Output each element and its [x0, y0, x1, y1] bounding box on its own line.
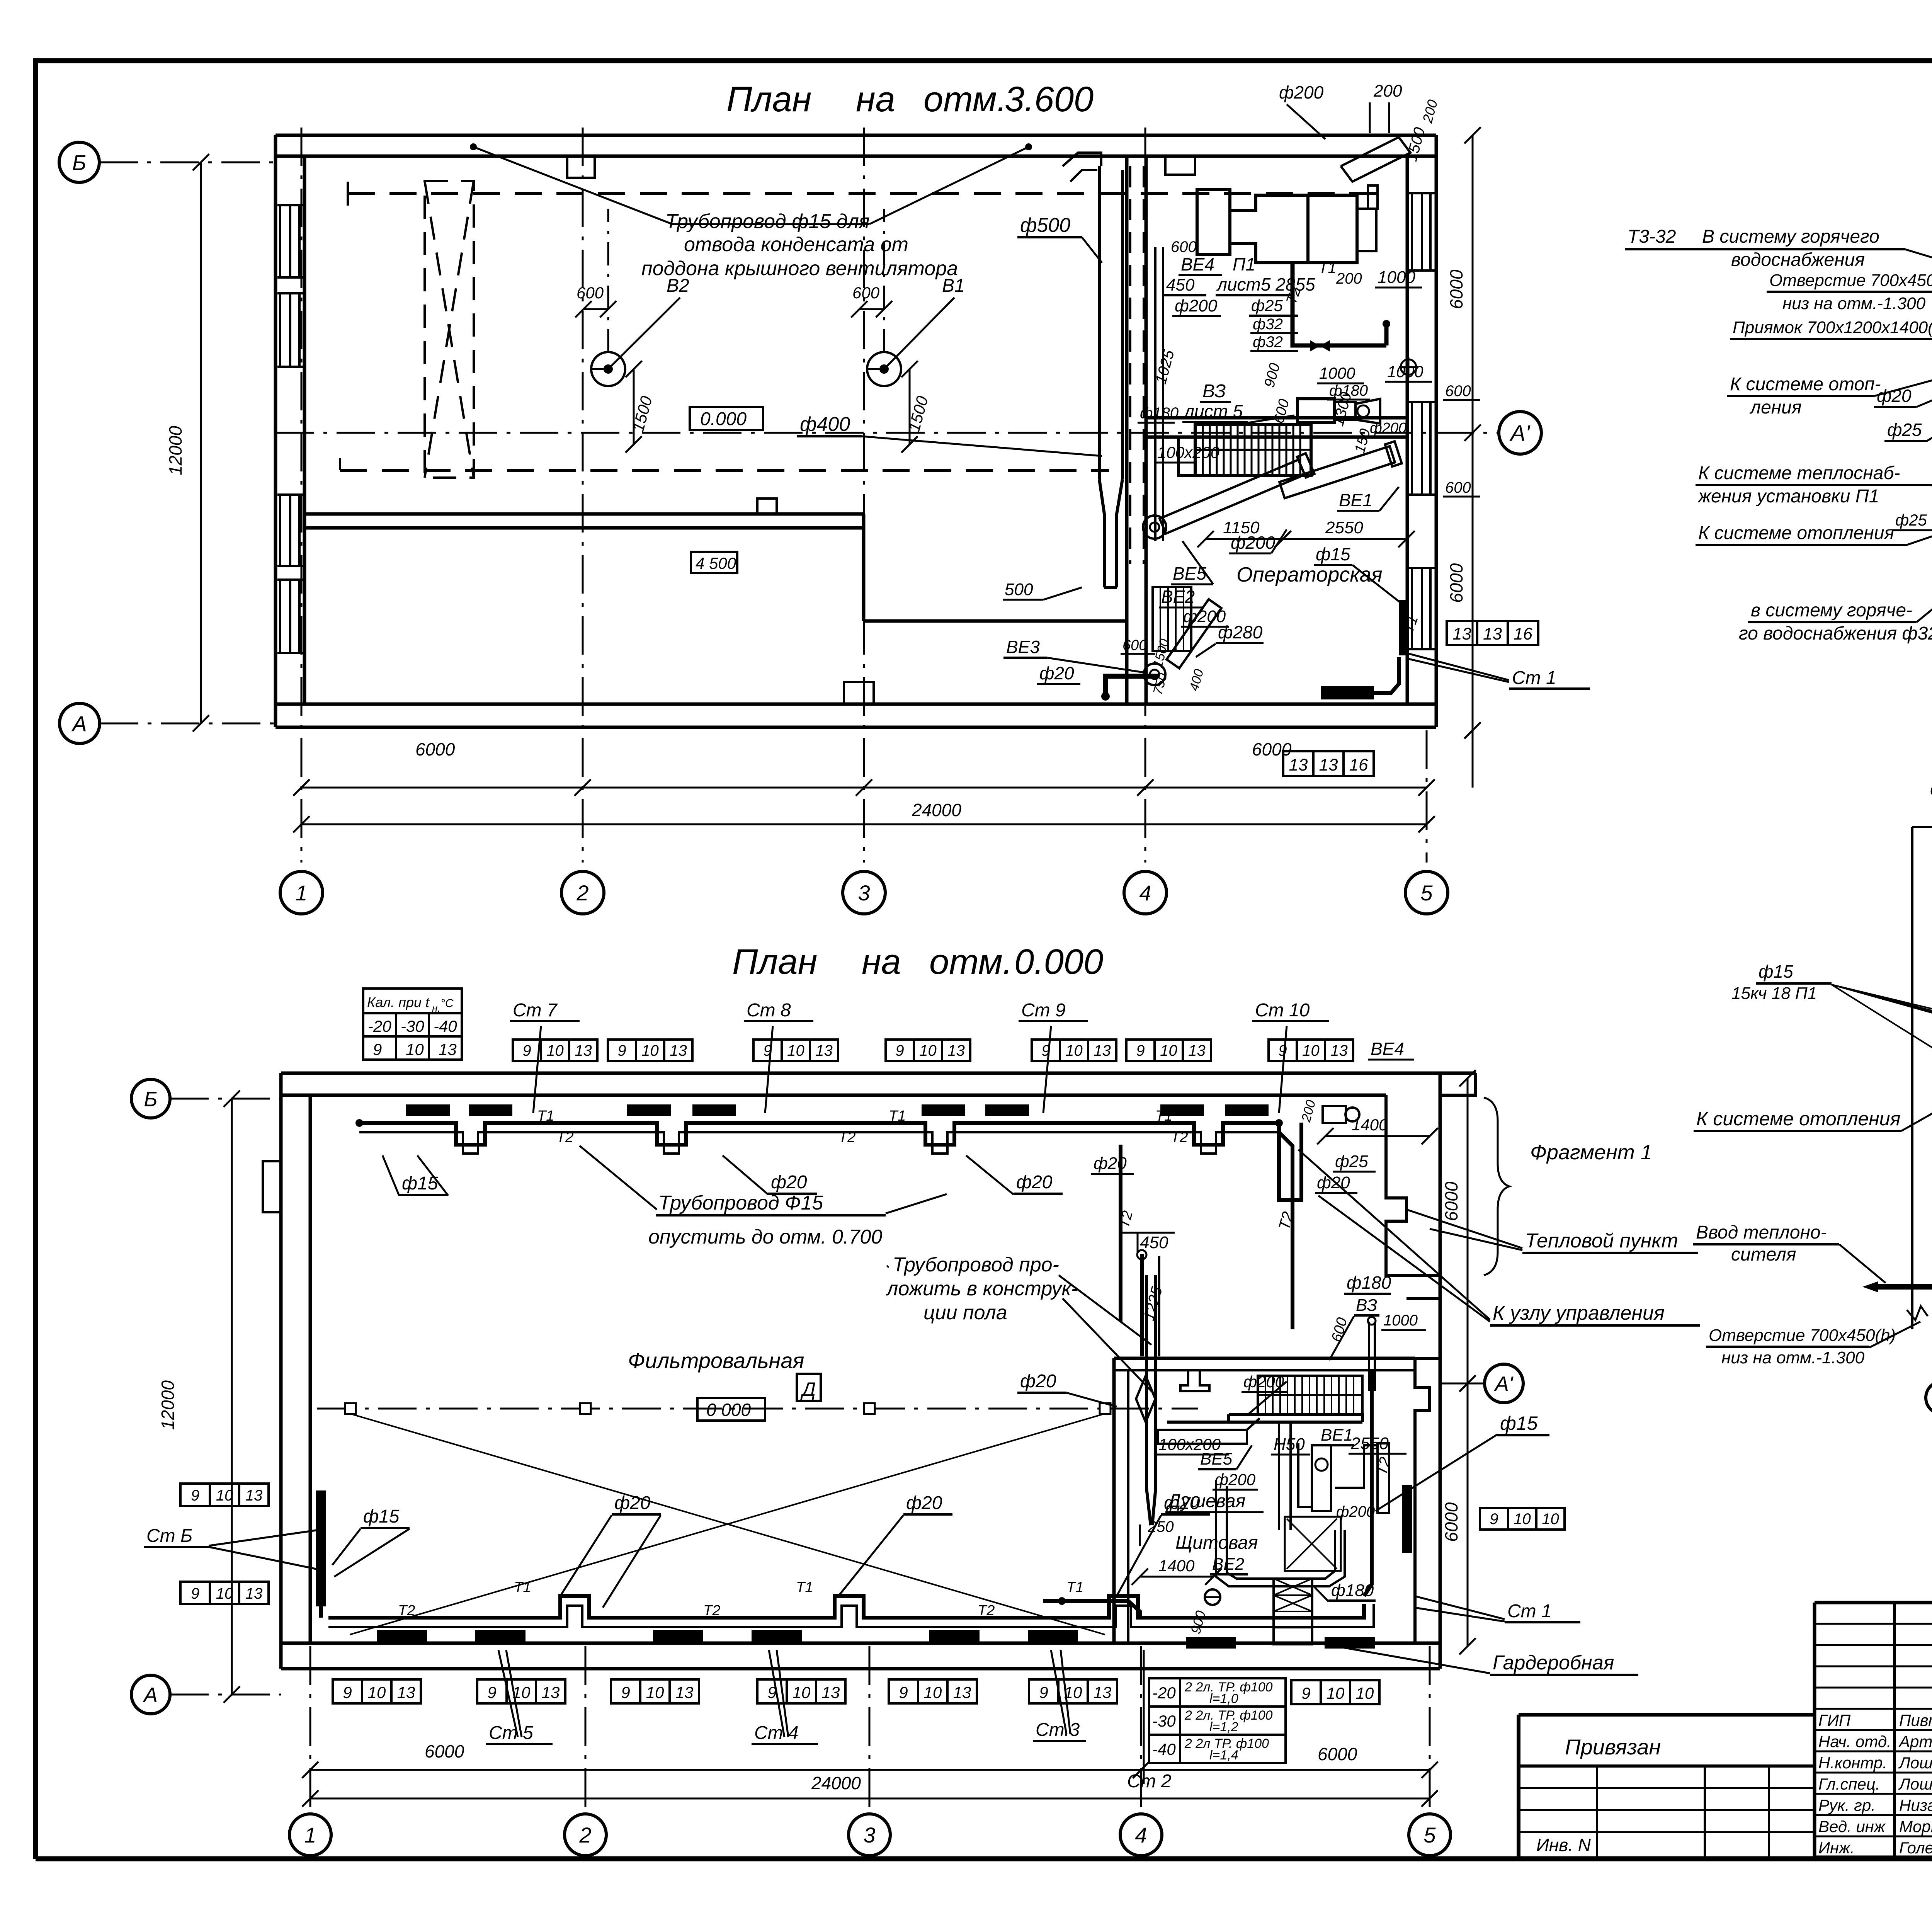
svg-text:Пивторак: Пивторак: [1899, 1711, 1932, 1729]
svg-text:9: 9: [1136, 1042, 1145, 1059]
svg-text:Отверстие 700х450(h): Отверстие 700х450(h): [1709, 1326, 1896, 1345]
svg-text:ф200: ф200: [1243, 1373, 1284, 1391]
svg-text:План: План: [732, 942, 817, 982]
svg-text:Отверстие 700х450(h): Отверстие 700х450(h): [1769, 271, 1932, 290]
dim 1400 and VE2: [1140, 1576, 1213, 1578]
svg-text:13: 13: [1094, 1042, 1111, 1059]
svg-text:l=1,2: l=1,2: [1209, 1720, 1238, 1734]
svg-text:10: 10: [546, 1042, 564, 1059]
svg-text:Ст 1: Ст 1: [1512, 668, 1556, 688]
black riser T1 in operator room: [1399, 600, 1406, 655]
bottom dim boxes row: [333, 1679, 362, 1703]
top plan: grid axis vertical dash-dot lines: [301, 128, 303, 863]
svg-text:ВЕ2: ВЕ2: [1212, 1555, 1244, 1574]
axis circle A (top plan): [60, 703, 100, 744]
D box label: [797, 1374, 821, 1401]
svg-text:600: 600: [1445, 479, 1471, 496]
svg-text:250: 250: [1148, 1518, 1174, 1535]
svg-text:Вед. инж: Вед. инж: [1818, 1817, 1886, 1836]
svg-text:1150: 1150: [1223, 518, 1260, 537]
top plan: operator room wall: [1146, 416, 1407, 420]
svg-text:2550: 2550: [1325, 518, 1363, 537]
label St1 with long leader: [1406, 653, 1509, 680]
svg-text:450: 450: [1166, 276, 1195, 294]
svg-text:1000: 1000: [1387, 362, 1423, 381]
svg-text:Т2: Т2: [838, 1129, 855, 1145]
svg-text:Гл.спец.: Гл.спец.: [1818, 1775, 1880, 1793]
black riser St B: [316, 1490, 326, 1606]
svg-text:Т1: Т1: [1066, 1579, 1083, 1596]
svg-text:снабжения уста.: снабжения уста.: [1930, 779, 1932, 800]
svg-text:ф20: ф20: [1020, 1371, 1056, 1392]
svg-text:ф15: ф15: [1316, 544, 1350, 564]
svg-text:ф20: ф20: [1016, 1172, 1053, 1193]
svg-text:Низамова: Низамова: [1899, 1796, 1932, 1814]
svg-text:13: 13: [1319, 755, 1338, 774]
svg-text:-30: -30: [401, 1017, 424, 1035]
svg-text:2: 2: [576, 881, 588, 905]
X mark in shower: [1287, 1519, 1337, 1569]
svg-text:Душевая: Душевая: [1166, 1491, 1245, 1511]
bottom dim line 24000: [310, 1798, 1430, 1800]
lower duct VE2 hatched shaft: [1153, 587, 1191, 651]
small vent unit VZ in operator zone: [1298, 399, 1334, 423]
top plan: right wall windows: [1411, 193, 1413, 271]
svg-text:ВЕ3: ВЕ3: [1006, 637, 1040, 657]
axis circle B (top plan): [59, 142, 99, 182]
svg-text:450: 450: [1140, 1233, 1168, 1252]
svg-text:ф15: ф15: [1759, 961, 1793, 982]
title block columns left: [1893, 1603, 1896, 1857]
svg-text:ф32: ф32: [1253, 333, 1283, 350]
svg-text:отм.: отм.: [923, 80, 1007, 119]
axis circle B (bottom plan): [131, 1079, 170, 1118]
svg-text:лист 5: лист 5: [1183, 401, 1243, 421]
svg-text:24000: 24000: [912, 800, 961, 820]
svg-text:13: 13: [822, 1683, 840, 1701]
svg-text:6000: 6000: [1446, 269, 1466, 309]
svg-text:1: 1: [304, 1823, 316, 1847]
9/10/13 boxes row (top of bottom plan): [513, 1040, 541, 1061]
svg-text:ф25: ф25: [1895, 511, 1927, 529]
svg-text:9: 9: [1041, 1042, 1050, 1059]
svg-text:16: 16: [1514, 624, 1532, 643]
B1 dim 1500: [909, 369, 911, 444]
duct VE1 slanted: [1279, 441, 1402, 501]
svg-text:Д: Д: [800, 1378, 816, 1400]
title block rows left: [1815, 1623, 1932, 1625]
roof fan B1: [867, 352, 901, 386]
roof fan B2: [591, 352, 625, 386]
svg-text:Приямок 700х1200х1400(h): Приямок 700х1200х1400(h): [1733, 318, 1932, 337]
svg-text:Ст 7: Ст 7: [513, 1000, 558, 1021]
svg-text:2: 2: [579, 1823, 591, 1847]
grid circles 1-5 (bottom plan): [289, 1814, 331, 1856]
svg-text:ф20: ф20: [1317, 1173, 1350, 1192]
duct VE5 slanted: [1158, 453, 1315, 536]
boxes 13 13 16 (below plan): [1283, 751, 1313, 776]
boxes 13 13 16 (right of plan): [1447, 621, 1477, 645]
duct F500 inner dashed riser pair: [1129, 166, 1131, 564]
top plan: corridor axis dash-dot A-prime: [276, 432, 1498, 434]
bottom plan: top wall radiators with fins: [406, 1104, 450, 1116]
svg-text:9: 9: [191, 1585, 199, 1602]
svg-text:ф15: ф15: [1500, 1412, 1538, 1434]
svg-text:12000: 12000: [158, 1380, 178, 1430]
dim 1400: [1325, 1135, 1430, 1137]
bottom plan: right wing walls (teplovoy punkt): [1386, 1073, 1476, 1275]
svg-text:Т1: Т1: [1318, 259, 1337, 276]
svg-text:жения установки П1: жения установки П1: [1697, 486, 1879, 507]
bottom dim line 24000 (top plan): [301, 823, 1427, 825]
svg-text:9: 9: [899, 1683, 908, 1701]
level mark 0.000 (top plan): [690, 407, 763, 430]
svg-text:13: 13: [670, 1042, 687, 1059]
svg-text:ф25: ф25: [1335, 1152, 1368, 1171]
svg-text:-40: -40: [434, 1017, 457, 1035]
svg-text:9: 9: [617, 1042, 626, 1059]
svg-text:на: на: [862, 942, 901, 982]
svg-text:в систему горяче-: в систему горяче-: [1751, 600, 1912, 621]
black riser right: [1402, 1485, 1412, 1553]
stairs (bottom plan): [1258, 1376, 1362, 1414]
svg-text:13: 13: [947, 1042, 965, 1059]
svg-text:10: 10: [924, 1683, 942, 1701]
svg-text:К системе отоп-: К системе отоп-: [1730, 374, 1881, 395]
B1 leader line: [884, 298, 954, 369]
axis circle A-prime (top plan): [1499, 412, 1541, 454]
bottom plan: T2 riser down right side: [1279, 1132, 1293, 1329]
svg-text:ф20: ф20: [771, 1172, 807, 1193]
svg-text:Щитовая: Щитовая: [1175, 1533, 1258, 1553]
svg-text:6000: 6000: [1446, 563, 1466, 603]
svg-text:В1: В1: [942, 276, 965, 296]
svg-text:3: 3: [863, 1823, 875, 1847]
svg-text:10: 10: [1065, 1042, 1083, 1059]
svg-text:Т2: Т2: [703, 1603, 720, 1619]
svg-text:Ст 8: Ст 8: [747, 1000, 791, 1021]
svg-text:сителя: сителя: [1731, 1244, 1796, 1265]
svg-text:Морковкина: Морковкина: [1899, 1817, 1932, 1836]
svg-text:13: 13: [1094, 1683, 1112, 1701]
svg-text:Тепловой пункт: Тепловой пункт: [1525, 1230, 1678, 1252]
svg-text:24000: 24000: [811, 1773, 861, 1793]
svg-text:ф200: ф200: [1370, 420, 1406, 436]
bottom dim line 1: [310, 1769, 1430, 1771]
svg-text:10: 10: [787, 1042, 804, 1059]
svg-text:600: 600: [1122, 637, 1147, 653]
svg-text:ВЕ2: ВЕ2: [1161, 587, 1195, 607]
svg-text:9: 9: [1301, 1684, 1310, 1702]
svg-text:10: 10: [793, 1683, 811, 1701]
grid circles 1-5 (top plan): [280, 871, 323, 914]
axis circle A (bottom plan): [131, 1675, 170, 1714]
svg-text:13: 13: [1483, 624, 1502, 643]
B2 dim 1500: [633, 369, 635, 444]
svg-text:9: 9: [1278, 1042, 1287, 1059]
top plan: bottom wall niche: [844, 682, 874, 704]
svg-text:Т2: Т2: [556, 1129, 573, 1145]
top plan: left wall windows: [279, 205, 281, 277]
svg-text:13: 13: [1452, 624, 1471, 643]
svg-text:Т2: Т2: [978, 1603, 995, 1619]
svg-text:0 000: 0 000: [706, 1400, 751, 1420]
svg-text:Т1: Т1: [889, 1108, 906, 1124]
svg-text:5: 5: [1420, 881, 1433, 905]
svg-text:Инж.: Инж.: [1818, 1839, 1855, 1857]
svg-text:600: 600: [1445, 383, 1471, 400]
T2 black pipe right side of block: [1364, 1370, 1372, 1596]
bottom dim line 6000/6000 (top plan): [301, 787, 1427, 789]
svg-text:l=1,0: l=1,0: [1209, 1691, 1238, 1706]
svg-text:10: 10: [406, 1040, 424, 1058]
svg-text:го водоснабжения ф32: го водоснабжения ф32: [1739, 623, 1932, 644]
svg-text:Артюшенко: Артюшенко: [1898, 1732, 1932, 1751]
svg-text:ления: ления: [1749, 397, 1802, 418]
f20 long riser down the middle: [1119, 1145, 1122, 1322]
svg-text:9: 9: [895, 1042, 904, 1059]
svg-text:А': А': [1494, 1372, 1514, 1395]
svg-text:ф20: ф20: [1094, 1154, 1127, 1173]
unit P1: fan/heater block rectangles: [1197, 189, 1230, 254]
svg-text:Ст 1: Ст 1: [1507, 1601, 1552, 1621]
svg-text:6000: 6000: [1441, 1502, 1461, 1542]
svg-text:10: 10: [1302, 1042, 1320, 1059]
svg-text:План: План: [726, 80, 811, 119]
svg-text:Привязан: Привязан: [1565, 1735, 1661, 1759]
privyazan table: [1519, 1713, 1815, 1717]
svg-text:Ст 5: Ст 5: [489, 1723, 533, 1743]
svg-text:13: 13: [953, 1683, 971, 1701]
svg-text:Ст.3: Ст.3: [1036, 1720, 1080, 1740]
svg-text:1: 1: [295, 881, 307, 905]
svg-text:ф200: ф200: [1175, 296, 1218, 315]
svg-text:500: 500: [1005, 580, 1033, 599]
stair landing walls: [1179, 437, 1195, 475]
svg-text:4: 4: [1135, 1823, 1147, 1847]
svg-text:4: 4: [1139, 881, 1151, 905]
svg-text:9: 9: [1490, 1511, 1498, 1528]
svg-text:-20: -20: [1152, 1684, 1176, 1702]
elbow duct f200 lower: [1216, 1480, 1345, 1586]
right vertical dim 6000/6000 (bottom plan): [1467, 1078, 1469, 1646]
svg-text:Т2: Т2: [1171, 1129, 1188, 1145]
svg-text:10: 10: [646, 1683, 664, 1701]
svg-text:ф32: ф32: [1253, 316, 1283, 333]
svg-text:отвода конденсата от: отвода конденсата от: [684, 233, 908, 256]
top plan: dashed vent duct line upper: [348, 192, 1391, 195]
svg-text:ф280: ф280: [1218, 622, 1263, 642]
svg-text:200: 200: [1336, 270, 1362, 287]
duct f200 vertical with shower equipment: [1278, 1422, 1280, 1530]
P1 slanted exhaust duct to roof: [1341, 137, 1410, 182]
svg-text:10: 10: [1356, 1684, 1374, 1702]
bottom plan: block top wall: [1114, 1357, 1415, 1360]
ladder with X braces: [1274, 1579, 1312, 1644]
svg-text:6000: 6000: [1318, 1744, 1357, 1764]
svg-text:6000: 6000: [425, 1741, 464, 1761]
cross-hair vent symbol: [1401, 359, 1416, 375]
svg-text:Н.контр.: Н.контр.: [1818, 1754, 1887, 1772]
svg-text:ВЕ5: ВЕ5: [1200, 1450, 1233, 1468]
black radiator bar (operator room): [1321, 686, 1374, 699]
break marks bottom of walls: [1907, 1306, 1928, 1320]
svg-text:ф180: ф180: [1347, 1273, 1391, 1293]
top plan: interior wall y1607 horizontal: [864, 619, 1127, 623]
svg-text:1400: 1400: [1352, 1116, 1388, 1134]
Kal pri tn table: [363, 989, 462, 1013]
svg-text:Фрагмент 1: Фрагмент 1: [1530, 1141, 1652, 1164]
svg-text:Операторская: Операторская: [1236, 563, 1383, 586]
level mark 4 500: [691, 552, 737, 573]
stair arrow: [1195, 449, 1260, 451]
svg-text:опустить до отм. 0.700: опустить до отм. 0.700: [648, 1226, 882, 1248]
svg-text:10: 10: [919, 1042, 937, 1059]
svg-text:13: 13: [1289, 755, 1308, 774]
svg-text:-20: -20: [368, 1017, 391, 1035]
stairs (top plan): [1195, 424, 1311, 476]
svg-text:ВЗ: ВЗ: [1356, 1296, 1377, 1315]
dims 1150 2550: [1206, 538, 1283, 540]
svg-text:Гардеробная: Гардеробная: [1493, 1652, 1614, 1674]
svg-text:10: 10: [1327, 1684, 1345, 1702]
bottom plan: bottom heating pipes with jogs: [328, 1596, 1364, 1618]
svg-text:ВЕ4: ВЕ4: [1371, 1039, 1404, 1059]
svg-text:отм.: отм.: [929, 942, 1012, 982]
svg-text:Трубопровод Ф15: Трубопровод Ф15: [658, 1192, 823, 1214]
svg-text:13: 13: [397, 1683, 415, 1701]
svg-text:Ст 2: Ст 2: [1127, 1771, 1172, 1792]
svg-text:10: 10: [216, 1585, 233, 1602]
VE4 fan symbol: [1323, 1106, 1346, 1123]
svg-text:1000: 1000: [1319, 364, 1355, 382]
svg-text:В систему горячего: В систему горячего: [1702, 226, 1879, 247]
VE5 tall duct left of block: [1146, 1275, 1151, 1525]
svg-text:13: 13: [245, 1487, 263, 1504]
St B label and boxes: [180, 1484, 210, 1506]
bottom plan: heating pipes T1/T2 with jogs (top): [359, 1123, 1279, 1145]
svg-text:12000: 12000: [165, 426, 185, 475]
svg-text:ф500: ф500: [1020, 214, 1070, 236]
heat pipe T1 loop in machine room: [1293, 263, 1386, 345]
top plan: outer walls: [276, 134, 1436, 137]
svg-text:водоснабжения: водоснабжения: [1731, 250, 1865, 270]
svg-text:0.000: 0.000: [700, 409, 747, 429]
shower stall outline: [1298, 1443, 1312, 1507]
svg-text:3: 3: [858, 881, 870, 905]
svg-text:10: 10: [1542, 1511, 1559, 1528]
VE5 horizontal duct into block: [1158, 1430, 1247, 1444]
svg-text:Б: Б: [144, 1087, 157, 1111]
svg-text:К системе отопления: К системе отопления: [1696, 1108, 1900, 1130]
svg-text:10: 10: [368, 1683, 386, 1701]
svg-text:ф180: ф180: [1140, 405, 1179, 422]
svg-text:ф25: ф25: [1251, 296, 1283, 315]
svg-text:Трубопровод про-: Трубопровод про-: [893, 1254, 1059, 1276]
top plan: interior wall x2235 vertical: [862, 528, 866, 621]
B2 leader line: [608, 298, 680, 369]
svg-text:1000: 1000: [1383, 1312, 1418, 1329]
top plan: dashed shaft with X brace: [425, 181, 474, 478]
svg-text:9: 9: [343, 1683, 352, 1701]
svg-text:ВЕ1: ВЕ1: [1321, 1426, 1353, 1444]
svg-text:9: 9: [1039, 1683, 1048, 1701]
riser duct at x3550: [1368, 1322, 1370, 1391]
svg-text:9: 9: [621, 1683, 630, 1701]
razrez: building section walls: [1911, 827, 1913, 1329]
svg-text:Ст 4: Ст 4: [754, 1723, 799, 1743]
VE2 fan circle: [1205, 1589, 1220, 1605]
svg-text:ГИП: ГИП: [1818, 1711, 1851, 1729]
svg-text:Ввод теплоно-: Ввод теплоно-: [1696, 1222, 1827, 1243]
svg-text:К системе отопления: К системе отопления: [1698, 523, 1894, 543]
svg-text:-40: -40: [1152, 1740, 1176, 1758]
svg-text:Т1: Т1: [796, 1579, 813, 1596]
svg-text:ф15: ф15: [363, 1506, 400, 1527]
svg-text:К системе теплоснаб-: К системе теплоснаб-: [1698, 463, 1900, 483]
svg-text:ф20: ф20: [1039, 663, 1074, 683]
svg-text:13: 13: [542, 1683, 560, 1701]
svg-text:К узлу управления: К узлу управления: [1493, 1302, 1665, 1324]
svg-text:Инв. N: Инв. N: [1536, 1835, 1591, 1855]
svg-text:13: 13: [1330, 1042, 1348, 1059]
wall below stair: [1229, 1414, 1362, 1422]
svg-text:600: 600: [852, 284, 880, 302]
svg-text:13: 13: [675, 1683, 694, 1701]
top plan: interior wall horizontal left hall: [304, 512, 864, 516]
svg-text:низ на отм.-1.300: низ на отм.-1.300: [1721, 1348, 1865, 1367]
riser from top pipes to right: [1279, 1123, 1301, 1200]
svg-text:А': А': [1509, 421, 1531, 446]
thick pipe bottom of block: [1043, 1601, 1140, 1618]
svg-text:16: 16: [1349, 755, 1368, 774]
svg-text:Б: Б: [72, 150, 86, 175]
svg-text:ВЗ: ВЗ: [1202, 381, 1226, 402]
svg-text:Т1: Т1: [1155, 1108, 1172, 1124]
svg-text:-30: -30: [1152, 1712, 1176, 1730]
fan circle VE3: [1144, 664, 1165, 685]
svg-text:П1: П1: [1233, 254, 1255, 274]
svg-text:на: на: [856, 80, 895, 119]
svg-text:13: 13: [439, 1040, 457, 1058]
svg-text:ф200: ф200: [1215, 1470, 1256, 1489]
bottom radiators: [377, 1630, 427, 1642]
svg-text:100х200: 100х200: [1157, 443, 1220, 461]
svg-text:Нач. отд.: Нач. отд.: [1818, 1732, 1891, 1751]
svg-text:l=1,4: l=1,4: [1209, 1748, 1238, 1763]
svg-text:13: 13: [815, 1042, 833, 1059]
svg-text:Лошакова: Лошакова: [1898, 1775, 1932, 1793]
top plan: door notch on interior wall: [757, 499, 777, 514]
svg-text:9: 9: [487, 1683, 496, 1701]
svg-text:5: 5: [1423, 1823, 1436, 1847]
black dot joints: [355, 1119, 363, 1127]
left dim 12000 (bottom plan): [231, 1099, 233, 1695]
svg-text:1000: 1000: [1378, 268, 1415, 287]
svg-text:Ст Б: Ст Б: [146, 1526, 192, 1546]
T-shape duct top of block: [1180, 1370, 1209, 1391]
special table -20/-30/-40: [1149, 1678, 1180, 1707]
svg-text:Голендер: Голендер: [1899, 1839, 1932, 1857]
svg-text:9: 9: [373, 1040, 382, 1058]
svg-text:Рук. гр.: Рук. гр.: [1818, 1796, 1876, 1814]
duct F500 vertical with elbow: [1063, 153, 1101, 166]
svg-text:°С: °С: [440, 997, 454, 1010]
bottom plan: right wing lower part: [1415, 1358, 1430, 1643]
svg-text:Фильтровальная: Фильтровальная: [628, 1348, 804, 1373]
top plan: dashed vent duct line lower: [340, 469, 1109, 472]
svg-text:ф20: ф20: [1877, 386, 1912, 406]
